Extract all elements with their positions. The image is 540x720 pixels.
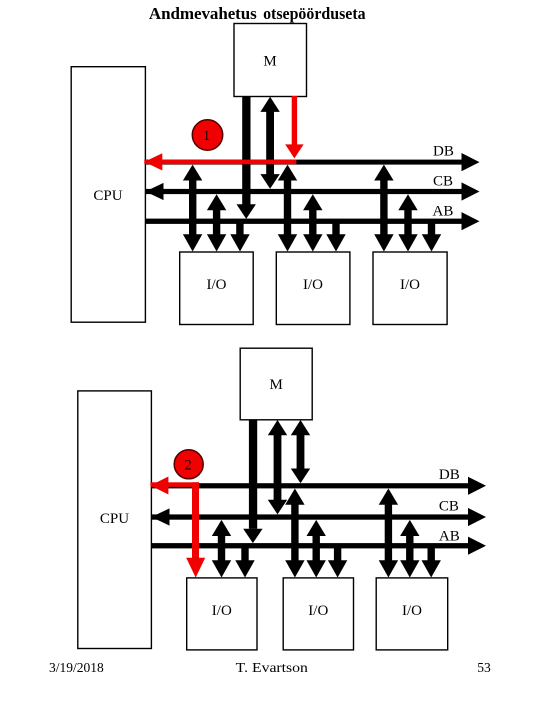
red arrow DB down to I/O1 (bottom) [186, 482, 205, 577]
i/o box 1 (bottom) [187, 578, 257, 650]
control bus CB (bottom) [151, 508, 486, 526]
cpu box (top) [71, 67, 145, 323]
address bus AB (bottom) [151, 537, 486, 555]
svg-text:DB: DB [433, 144, 454, 160]
down arrow AB to I/O2 (bottom) [328, 545, 347, 578]
svg-text:CPU: CPU [93, 188, 122, 204]
wire M2 to AB with down arrow [243, 420, 262, 543]
svg-text:otsepöörduseta: otsepöörduseta [263, 4, 366, 23]
svg-text:DB: DB [439, 467, 460, 483]
double arrow DB to I/O1 (top) [183, 165, 202, 252]
svg-text:CB: CB [433, 174, 453, 190]
svg-text:3/19/2018: 3/19/2018 [49, 660, 104, 675]
red arrow DB into CPU (top) [144, 153, 296, 170]
svg-text:1: 1 [203, 128, 210, 144]
svg-text:I/O: I/O [303, 277, 323, 293]
i/o box 2 (bottom) [283, 578, 353, 650]
red step circle 1 [192, 120, 222, 150]
svg-text:Andmevahetus: Andmevahetus [149, 4, 257, 23]
svg-text:CB: CB [439, 498, 459, 514]
svg-text:AB: AB [433, 204, 454, 220]
i/o box 3 (top) [373, 252, 447, 325]
down arrow AB to I/O2 (top) [326, 221, 345, 252]
data bus DB (top) [145, 153, 479, 171]
i/o box 2 (top) [276, 252, 350, 325]
double arrow DB to I/O3 (top) [374, 165, 393, 252]
down arrow AB to I/O1 (bottom) [235, 545, 254, 578]
double arrow M2 to CB [268, 420, 287, 514]
svg-text:I/O: I/O [212, 603, 232, 619]
svg-text:2: 2 [184, 458, 191, 474]
double arrow CB to I/O2 (bottom) [307, 520, 326, 578]
red step circle 2 [174, 450, 203, 479]
double arrow DB to I/O2 (top) [278, 165, 297, 252]
svg-text:AB: AB [439, 528, 460, 544]
double arrow DB to I/O3 (bottom) [379, 489, 398, 578]
svg-text:53: 53 [477, 660, 491, 675]
double arrow DB to I/O2 (bottom) [285, 489, 304, 578]
red arrow M1 to DB [285, 96, 303, 158]
svg-text:M: M [270, 377, 283, 393]
cpu box (bottom) [78, 391, 152, 649]
down arrow AB to I/O3 (top) [422, 221, 441, 252]
svg-text:I/O: I/O [400, 277, 420, 293]
svg-text:I/O: I/O [207, 277, 227, 293]
double arrow CB to I/O1 (top) [207, 194, 226, 251]
double arrow CB to I/O2 (top) [303, 194, 322, 251]
red arrow DB into CPU (bottom) [150, 477, 199, 495]
svg-text:M: M [263, 54, 276, 70]
svg-text:T. Evartson: T. Evartson [236, 660, 308, 675]
down arrow AB to I/O3 (bottom) [422, 545, 441, 578]
down arrow AB to I/O1 (top) [230, 221, 249, 252]
memory box M2 [240, 348, 312, 420]
address bus AB (top) [145, 212, 479, 230]
i/o box 1 (top) [180, 252, 254, 325]
double arrow CB to I/O3 (top) [398, 194, 417, 251]
wire M1 to AB with down arrow [237, 96, 256, 219]
svg-text:I/O: I/O [308, 603, 328, 619]
svg-text:CPU: CPU [100, 511, 129, 527]
control bus CB (top) [145, 182, 479, 200]
double arrow CB to I/O1 (bottom) [212, 520, 231, 578]
svg-text:I/O: I/O [402, 603, 422, 619]
memory box M1 [234, 24, 307, 97]
double arrow CB to I/O3 (bottom) [400, 520, 419, 578]
double arrow M1 to CB [260, 97, 279, 189]
data bus DB (bottom) [151, 477, 486, 495]
double arrow M2 to DB [291, 420, 310, 483]
i/o box 3 (bottom) [376, 578, 448, 650]
